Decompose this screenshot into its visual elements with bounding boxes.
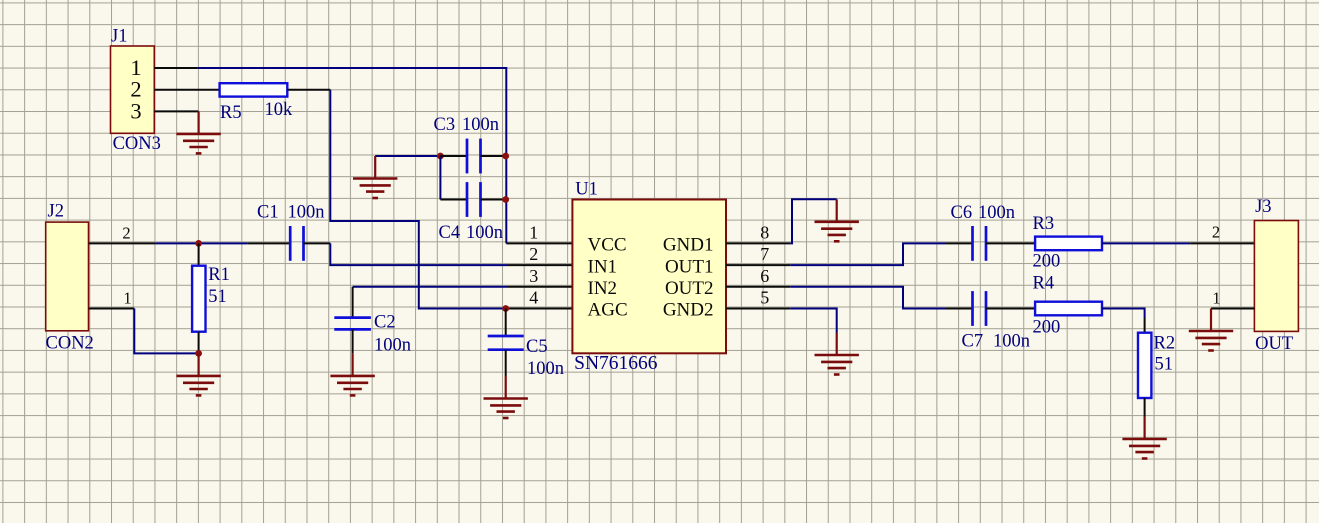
pin number 5 U1	[760, 288, 769, 308]
pin 3 of U1 IN2	[508, 286, 572, 288]
pin 6 of U1 OUT2	[726, 286, 790, 288]
label C2 designator	[374, 313, 396, 333]
capacitor C3	[440, 139, 505, 174]
wire J1 pin1 to U1 VCC	[198, 68, 507, 243]
svg-text:10k: 10k	[265, 100, 294, 120]
svg-text:100n: 100n	[374, 336, 411, 356]
svg-text:4: 4	[529, 288, 538, 308]
svg-text:C2: C2	[374, 313, 396, 333]
pin number 1 U1	[529, 222, 538, 242]
label R3 value 200	[1033, 252, 1061, 272]
op-amp U1 SN761666 body	[572, 200, 726, 354]
label C7 designator	[962, 332, 984, 352]
ground at GND1	[815, 199, 859, 241]
wire R1 bottom lead	[198, 332, 200, 354]
svg-text:3: 3	[529, 266, 538, 286]
svg-text:8: 8	[760, 222, 769, 242]
capacitor C1	[247, 226, 330, 261]
svg-text:GND1: GND1	[663, 235, 714, 256]
svg-text:IN1: IN1	[588, 256, 618, 277]
ground at R1	[176, 353, 220, 395]
ground at C2	[330, 353, 374, 395]
wire R4 to R2	[1102, 309, 1145, 319]
pin 1 of J2	[89, 308, 135, 310]
label C7 value 100n	[993, 332, 1030, 352]
svg-text:C7: C7	[962, 332, 984, 352]
label R2 designator	[1154, 334, 1176, 354]
ground at J1 pin3	[176, 111, 220, 153]
pin number 2 J3	[1212, 223, 1220, 242]
svg-text:R2: R2	[1154, 334, 1176, 354]
ground at J3 pin1	[1189, 309, 1233, 351]
connector J3 (OUT) body	[1254, 221, 1298, 332]
node AGC junction	[502, 305, 509, 312]
wire OUT1 to C6	[790, 243, 946, 265]
resistor R4	[1035, 302, 1102, 316]
pin 5 of U1 GND2	[726, 308, 790, 310]
label C1 designator	[257, 203, 279, 223]
label J3 designator	[1255, 197, 1271, 217]
svg-text:100n: 100n	[466, 223, 503, 243]
svg-text:R5: R5	[220, 103, 242, 123]
pin number 2 J1	[130, 77, 141, 102]
pin number 1 J3	[1212, 289, 1220, 308]
svg-text:IN2: IN2	[588, 278, 618, 299]
pin 1 of J3	[1211, 308, 1254, 310]
wire ground stub to C3/C4	[375, 155, 440, 157]
ground at C5	[484, 376, 528, 418]
pin number 7 U1	[760, 244, 769, 264]
label R3 designator	[1033, 214, 1055, 234]
label C6 value 100n	[978, 203, 1015, 223]
capacitor C5	[488, 309, 524, 377]
svg-text:R4: R4	[1033, 274, 1055, 294]
pin 1 of U1 VCC	[506, 242, 572, 244]
node R1 ground junction	[195, 350, 202, 357]
svg-text:AGC: AGC	[588, 300, 628, 321]
svg-text:C5: C5	[526, 337, 548, 357]
pin 3 of J1	[154, 110, 198, 112]
wire R5 right pin	[287, 89, 330, 91]
pin number 4 U1	[529, 288, 538, 308]
wire OUT2 to C7	[790, 287, 946, 309]
svg-text:1: 1	[123, 288, 131, 307]
pin number 1 J2	[123, 288, 131, 307]
svg-text:R3: R3	[1033, 214, 1055, 234]
pin number 3 J1	[130, 98, 141, 123]
label C4 designator	[439, 223, 461, 243]
svg-text:J1: J1	[111, 27, 127, 47]
pin name OUT1	[665, 256, 714, 277]
label R1 value 51	[208, 287, 227, 307]
capacitor C7	[946, 291, 1035, 326]
label R4 designator	[1033, 274, 1055, 294]
label R4 value 200	[1033, 318, 1061, 338]
wire R2 top lead	[1144, 318, 1146, 333]
svg-text:100n: 100n	[462, 115, 499, 135]
svg-text:J2: J2	[48, 202, 64, 222]
resistor R3	[1035, 237, 1102, 251]
svg-text:51: 51	[208, 287, 227, 307]
svg-text:C6: C6	[951, 203, 973, 223]
pin 1 of J1	[154, 67, 198, 69]
svg-text:7: 7	[760, 244, 769, 264]
label R2 value 51	[1155, 355, 1174, 375]
label CON3 value	[113, 134, 161, 154]
svg-text:2: 2	[1212, 223, 1220, 242]
svg-text:C4: C4	[439, 223, 461, 243]
label 10k value	[265, 100, 294, 120]
svg-text:100n: 100n	[288, 203, 325, 223]
svg-text:1: 1	[529, 222, 538, 242]
wire C3 to C4 left	[439, 156, 441, 200]
pin 7 of U1 OUT1	[726, 264, 790, 266]
connector J1 (CON3) body	[111, 46, 155, 133]
pin 2 of U1 IN1	[508, 264, 572, 266]
pin name IN1	[588, 256, 618, 277]
connector J2 (CON2) body	[46, 222, 89, 331]
svg-text:OUT1: OUT1	[665, 256, 714, 277]
label C4 value 100n	[466, 223, 503, 243]
label U1 designator	[575, 180, 598, 200]
svg-text:200: 200	[1033, 318, 1061, 338]
node C3 right junction	[502, 153, 509, 160]
svg-text:100n: 100n	[993, 332, 1030, 352]
wire R2 bottom lead	[1144, 398, 1146, 417]
svg-text:SN761666: SN761666	[574, 353, 658, 374]
label R5 designator	[220, 103, 242, 123]
pin 8 of U1 GND1	[726, 242, 790, 244]
capacitor C2	[334, 287, 371, 354]
svg-text:CON3: CON3	[113, 134, 161, 154]
pin name GND2	[663, 300, 714, 321]
label C1 value 100n	[288, 203, 325, 223]
label CON2 value	[46, 334, 94, 354]
pin 2 of J3	[1190, 242, 1254, 244]
svg-text:CON2: CON2	[46, 334, 94, 354]
svg-text:1: 1	[1212, 289, 1220, 308]
svg-text:C1: C1	[257, 203, 279, 223]
svg-text:OUT2: OUT2	[665, 278, 714, 299]
svg-text:100n: 100n	[527, 359, 564, 379]
pin 2 of J1	[154, 89, 219, 91]
resistor R5	[220, 83, 288, 96]
resistor R1	[192, 266, 205, 332]
ground left of C3	[353, 156, 397, 198]
wire GND1 to ground	[790, 199, 837, 243]
wire J2 pin1 to ground bus	[134, 309, 198, 354]
svg-text:200: 200	[1033, 252, 1061, 272]
svg-text:6: 6	[760, 266, 769, 286]
node C4 right junction	[502, 196, 509, 203]
svg-text:GND2: GND2	[663, 300, 714, 321]
svg-text:2: 2	[529, 244, 538, 264]
wire C1 to U1 IN1	[330, 243, 508, 265]
label C3 value 100n	[462, 115, 499, 135]
svg-text:51: 51	[1155, 355, 1174, 375]
label C5 designator	[526, 337, 548, 357]
label C2 value 100n	[374, 336, 411, 356]
svg-text:OUT: OUT	[1255, 334, 1293, 354]
pin number 1 J1	[130, 55, 141, 80]
svg-text:U1: U1	[575, 180, 598, 200]
label SN761666 value	[574, 353, 658, 374]
svg-text:2: 2	[122, 223, 130, 242]
pin name OUT2	[665, 278, 714, 299]
wire R3 to J3	[1102, 242, 1190, 244]
label OUT value	[1255, 334, 1293, 354]
svg-text:3: 3	[130, 98, 141, 123]
pin number 6 U1	[760, 266, 769, 286]
node C3 left junction	[437, 153, 444, 160]
wire IN2 net	[353, 286, 508, 288]
label J1 designator	[111, 27, 127, 47]
label C3 designator	[434, 115, 456, 135]
svg-text:5: 5	[760, 288, 769, 308]
svg-text:R1: R1	[208, 265, 230, 285]
capacitor C6	[946, 226, 1035, 261]
pin name VCC	[588, 235, 627, 256]
label R1 designator	[208, 265, 230, 285]
pin name IN2	[588, 278, 618, 299]
label J2 designator	[48, 202, 64, 222]
pin number 8 U1	[760, 222, 769, 242]
ground at R2	[1122, 417, 1166, 459]
label C5 value 100n	[527, 359, 564, 379]
pin number 2 J2	[122, 223, 130, 242]
wire J2 pin2 to C1	[155, 242, 247, 244]
pin 4 of U1 AGC	[506, 308, 573, 310]
node J2 pin2 junction	[195, 240, 202, 247]
resistor R2	[1138, 333, 1151, 398]
capacitor C4	[440, 182, 505, 217]
svg-text:J3: J3	[1255, 197, 1271, 217]
pin name GND1	[663, 235, 714, 256]
pin number 2 U1	[529, 244, 538, 264]
ground at GND2	[815, 333, 859, 375]
wire GND2 to ground	[790, 309, 837, 333]
pin name AGC	[588, 300, 628, 321]
svg-text:100n: 100n	[978, 203, 1015, 223]
svg-text:C3: C3	[434, 115, 456, 135]
pin number 3 U1	[529, 266, 538, 286]
pin 2 of J2	[89, 242, 156, 244]
label C6 designator	[951, 203, 973, 223]
wire R5 to AGC	[330, 90, 505, 309]
svg-text:VCC: VCC	[588, 235, 627, 256]
wire R1 top lead	[198, 243, 200, 265]
